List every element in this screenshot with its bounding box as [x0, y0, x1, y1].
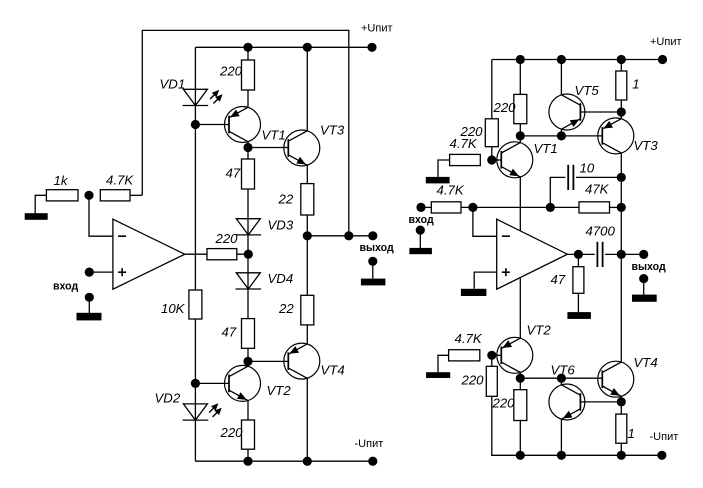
node +rail/220 junction (left) [243, 43, 252, 52]
node output ground terminal (right) [639, 274, 648, 283]
svg-text:VD4: VD4 [268, 271, 294, 286]
label 1 upper (right) [632, 77, 639, 92]
ground of output (left) [361, 279, 386, 286]
label 220 output (left) [215, 231, 239, 246]
node output ground terminal (left) [368, 257, 377, 266]
resistor 220 first (right top) [485, 119, 498, 147]
wire inverting input branch (right) [473, 207, 497, 236]
node VT6-collector junction (right) [557, 374, 566, 383]
label +Uпит (right) [650, 36, 682, 48]
node -rail/220 (right) [516, 451, 525, 460]
resistor 47K (right) [579, 202, 610, 213]
node -rail/220 junction (left) [243, 457, 252, 466]
label VT2 (left) [267, 383, 292, 398]
wire +Uпит rail (right) [492, 59, 663, 61]
svg-text:4.7K: 4.7K [437, 182, 465, 197]
wire VT2 base (left) [195, 382, 229, 384]
node input ground terminal (right) [416, 226, 425, 235]
resistor 4.7K upper (right) [450, 154, 481, 165]
diode VD3 [236, 219, 262, 235]
svg-text:вход: вход [53, 280, 78, 292]
wire op-amp output (right) [567, 253, 594, 255]
svg-text:47: 47 [551, 272, 566, 287]
svg-text:22: 22 [278, 191, 294, 206]
svg-text:-Uпит: -Uпит [355, 438, 384, 450]
svg-text:47: 47 [222, 325, 237, 340]
node VD2/VT2-base junction [191, 379, 200, 388]
label VT4 (left) [321, 363, 345, 378]
resistor 4.7K (left) [100, 190, 130, 201]
svg-text:220: 220 [220, 425, 244, 440]
transistor VT3 (right) [598, 118, 634, 154]
label 47 shunt (right) [551, 272, 566, 287]
wire VT6 base (right) [580, 401, 621, 403]
wire VT3 emitter / output chain (left) [306, 165, 308, 344]
svg-text:VT4: VT4 [321, 363, 345, 378]
wire 47K to output line (right) [610, 206, 622, 208]
op-amp U2 plus pin [502, 268, 510, 276]
resistor 220 fourth (right bottom) [514, 390, 527, 421]
ground of 4.7K lower (right) [426, 372, 450, 378]
svg-text:220: 220 [461, 373, 485, 388]
node VT1-collector junction (right) [516, 131, 525, 140]
svg-text:220: 220 [215, 231, 239, 246]
node +Uпит terminal (left) [367, 43, 376, 52]
label -Uпит (right) [650, 431, 679, 443]
svg-text:VD2: VD2 [155, 391, 181, 406]
wire VT4 base (left) [248, 360, 288, 362]
resistor 4.7K lower (right) [449, 350, 480, 361]
svg-text:10: 10 [580, 160, 595, 175]
svg-text:4.7K: 4.7K [450, 136, 478, 151]
node +Uпит terminal (right) [658, 55, 667, 64]
resistor 47 shunt (right) [573, 267, 584, 294]
op-amp U1 (left) [113, 219, 185, 289]
node +rail/220 (right) [516, 55, 525, 64]
label вход (left) [53, 280, 78, 292]
svg-text:VT3: VT3 [634, 138, 659, 153]
label VT2 (right) [527, 323, 552, 338]
transistor VT2 (left) [225, 365, 261, 401]
node cap10 tap (right) [546, 203, 555, 212]
label вход (right) [409, 214, 434, 226]
wire VT3 collector / output line (right) [620, 153, 622, 362]
wire output ground stem (left) [372, 261, 374, 278]
label VT3 (left) [320, 123, 345, 138]
node -Uпит terminal (right) [657, 451, 666, 460]
transistor VT4 (right) [598, 361, 634, 397]
node VT2-collector junction (right) [516, 374, 525, 383]
label 10K [161, 301, 186, 316]
wire VT3 collector to +rail (left) [306, 47, 308, 131]
svg-text:220: 220 [492, 396, 516, 411]
svg-text:выход: выход [632, 261, 667, 273]
wire -Uпит rail (left) [195, 460, 372, 462]
wire 220/4.7K input branch upper (right) [491, 60, 493, 161]
svg-text:22: 22 [278, 301, 294, 316]
wire VT5 base (right) [580, 111, 621, 113]
svg-text:220: 220 [219, 64, 243, 79]
wire output node (left) [307, 235, 373, 237]
label 220 first (right top) [460, 124, 484, 139]
op-amp U1 minus pin [118, 235, 126, 237]
svg-text:вход: вход [409, 214, 434, 226]
node VD3/VD4 midpoint [244, 250, 253, 259]
transistor VT6 (right) [549, 384, 585, 420]
node VT1-collector junction [243, 143, 252, 152]
ground of input (right) [409, 248, 432, 254]
node input ground terminal (left) [85, 293, 94, 302]
node op-amp output junction (right) [574, 250, 583, 259]
resistor 1k [46, 190, 78, 201]
wire 4.7K upper to ground (right) [438, 160, 450, 177]
label 22 upper [278, 191, 294, 206]
LED VD1 [183, 89, 209, 105]
svg-text:+Uпит: +Uпит [361, 23, 393, 35]
svg-text:4700: 4700 [586, 224, 616, 239]
label VD4 [268, 271, 294, 286]
node VT1 base junction (right) [487, 155, 496, 164]
node VT5-emitter junction (right) [557, 131, 566, 140]
label 220 fourth (right bottom) [492, 396, 516, 411]
label VT4 (right) [634, 355, 658, 370]
wire 47 shunt stem (right) [577, 254, 579, 266]
svg-text:1: 1 [628, 426, 635, 441]
label 1 lower (right) [628, 426, 635, 441]
svg-text:47K: 47K [585, 182, 610, 197]
svg-text:220: 220 [493, 100, 517, 115]
label 10 (right) [580, 160, 595, 175]
svg-text:47: 47 [226, 166, 241, 181]
label VD2 [155, 391, 181, 406]
resistor 220 third (right bottom) [486, 366, 497, 396]
label 220 second (right top) [493, 100, 517, 115]
svg-text:VT2: VT2 [267, 383, 292, 398]
wire VT3 base (left) [248, 147, 288, 149]
node выход terminal (left) [368, 231, 377, 240]
wire 4700 to output node (right) [605, 253, 644, 255]
node VT5-base/1 junction (right) [617, 107, 626, 116]
svg-text:-Uпит: -Uпит [650, 431, 679, 443]
wire VT1 base (left) [195, 124, 229, 126]
label -Uпит (left) [355, 438, 384, 450]
transistor VT5 (right) [549, 94, 585, 130]
wire output ground stem (right) [643, 279, 645, 295]
ground of 4.7K upper (right) [426, 177, 450, 184]
wire input ground stem (left) [88, 297, 90, 313]
wire 47 shunt to ground (right) [577, 293, 579, 312]
wire VT1-collector to VT3-base (right) [520, 135, 602, 137]
node +rail/VT3 junction (left) [303, 43, 312, 52]
label выход (right) [632, 261, 667, 273]
wire 220/4.7K input branch lower (right) [492, 355, 662, 455]
capacitor 4700 (right) [597, 242, 602, 267]
resistor 10K [189, 290, 202, 319]
wire cap 10 branch left (right) [550, 177, 565, 207]
wire VT1 collector chain (right) [519, 60, 521, 143]
wire VT1 base (right) [492, 159, 502, 161]
label 4.7K upper (right) [450, 136, 478, 151]
wire +Uпит rail (left) [195, 46, 372, 48]
ground of non-inverting input (right) [461, 289, 487, 296]
svg-text:VD3: VD3 [268, 218, 294, 233]
svg-text:4.7K: 4.7K [455, 331, 483, 346]
node +rail/1 (right) [617, 55, 626, 64]
svg-text:1k: 1k [54, 173, 69, 188]
node вход terminal (left) [85, 268, 94, 277]
transistor VT4 (left) [284, 343, 320, 379]
wire вход to 4.7K (right) [421, 206, 431, 208]
label 47K (right) [585, 182, 610, 197]
resistor 220 second (right top) [514, 94, 527, 123]
transistor VT1 (right) [497, 142, 533, 178]
ground of 47 shunt (right) [567, 312, 591, 319]
label VD3 [268, 218, 294, 233]
wire VT2 collector chain (right) [519, 373, 521, 456]
label 4700 (right) [586, 224, 616, 239]
wire 4.7K lower to ground (right) [438, 355, 449, 372]
label 1k [54, 173, 69, 188]
svg-text:1: 1 [632, 77, 639, 92]
ground of 1k [25, 213, 48, 220]
transistor VT3 (left) [284, 130, 320, 166]
LED VD2 [183, 404, 209, 420]
wire VT1/VT2 emitter link (right) [519, 177, 521, 338]
transistor VT2 (right) [497, 337, 533, 373]
node VT2 base junction (right) [487, 351, 496, 360]
svg-text:VT4: VT4 [634, 355, 658, 370]
wire bias chain VD1-10K-VD2 (left) [194, 47, 196, 461]
node 47K/output junction (right) [617, 203, 626, 212]
resistor 4.7K input (right) [431, 202, 461, 213]
wire main chain x=248 lower (left) [247, 401, 249, 462]
label VT5 (right) [575, 83, 600, 98]
op-amp U2 minus pin [502, 235, 510, 237]
wire VT2-collector to VT4-base (right) [520, 377, 602, 379]
label 220 bottom (left) [220, 425, 244, 440]
wire input ground stem (right) [419, 230, 421, 248]
node VT4-emitter/VT6-base junction (right) [617, 397, 626, 406]
wire 4.7K to feedback (left) [130, 194, 142, 196]
node вход terminal (right) [416, 203, 425, 212]
resistor 1 upper (right) [616, 71, 627, 100]
label 220 top (left) [219, 64, 243, 79]
node VD1/VT1-base junction [191, 120, 200, 129]
svg-text:VD1: VD1 [160, 76, 186, 91]
resistor 1 lower (right) [616, 414, 627, 443]
wire main chain x=248 upper (left) [247, 47, 249, 107]
node VT2-collector junction [243, 357, 252, 366]
wire VT6 emitter (right) [560, 419, 562, 455]
wire cap 10 branch right (right) [576, 176, 621, 178]
ground of output (right) [632, 295, 657, 302]
node +rail/VT5 (right) [557, 55, 566, 64]
wire op-amp output (left) [185, 253, 248, 255]
capacitor 10 (right) [568, 165, 573, 190]
node -rail/VT4 junction (left) [303, 457, 312, 466]
label +Uпит (left) [361, 23, 393, 35]
resistor 47 lower (left) [242, 319, 255, 349]
resistor 220 top (left) [242, 60, 255, 90]
node inverting junction (right) [468, 203, 477, 212]
label 47 lower (left) [222, 325, 237, 340]
svg-text:VT2: VT2 [527, 323, 552, 338]
svg-text:VT5: VT5 [575, 83, 600, 98]
label 4.7K (left) [106, 173, 134, 188]
svg-text:VT1: VT1 [262, 128, 286, 143]
op-amp U1 plus pin [118, 268, 126, 276]
resistor 22 lower [301, 295, 314, 325]
transistor VT1 (left) [225, 107, 261, 143]
LED VD2 arrows [209, 403, 222, 417]
svg-text:+Uпит: +Uпит [650, 36, 682, 48]
label VT3 (right) [634, 138, 659, 153]
svg-text:4.7K: 4.7K [106, 173, 134, 188]
node -Uпит terminal (left) [368, 457, 377, 466]
label 4.7K lower (right) [455, 331, 483, 346]
node -rail/1 (right) [617, 451, 626, 460]
svg-text:10K: 10K [161, 301, 186, 316]
node cap10/output junction (right) [617, 173, 626, 182]
resistor 220 output (left) [207, 249, 237, 260]
svg-text:выход: выход [360, 242, 395, 254]
node junction 1k/4.7K [84, 191, 93, 200]
LED VD1 arrows [210, 90, 223, 104]
node output/feedback junction (left) [344, 231, 353, 240]
wire VT4 emitter branch (right) [620, 396, 622, 455]
node output/22 junction (left) [303, 231, 312, 240]
wire inverting input (left) [89, 195, 113, 236]
diode VD4 [236, 273, 262, 289]
node 4700/output junction (right) [617, 250, 626, 259]
wire inverting feedback line (right) [461, 206, 579, 208]
label VT6 (right) [551, 363, 576, 378]
wire 1 resistor top branch (right) [620, 60, 622, 119]
wire VT2 base (right) [492, 354, 502, 356]
wire non-inverting input to ground (right) [474, 272, 497, 289]
resistor 220 bottom (left) [242, 420, 255, 449]
resistor 22 upper [301, 184, 314, 215]
label VT1 (left) [262, 128, 286, 143]
wire VT5 emitter (right) [560, 129, 562, 136]
wire VT4 collector to -rail (left) [306, 378, 308, 461]
ground of input (left) [77, 313, 102, 321]
label VD1 [160, 76, 186, 91]
resistor 47 upper (left) [242, 159, 255, 189]
wire feedback loop (op-amp output to inverting network, left) [142, 30, 348, 235]
wire main chain x=248 middle (left) [247, 142, 249, 367]
label 22 lower [278, 301, 294, 316]
op-amp U2 (right) [497, 219, 568, 289]
svg-text:VT1: VT1 [534, 141, 558, 156]
wire VT6 collector (right) [560, 378, 562, 385]
svg-text:VT3: VT3 [320, 123, 345, 138]
label 47 upper (left) [226, 166, 241, 181]
node выход terminal (right) [639, 250, 648, 259]
label VT1 (right) [534, 141, 558, 156]
label 220 third (right bottom) [461, 373, 485, 388]
wire 1k to ground (left) [35, 195, 46, 213]
label выход (left) [360, 242, 395, 254]
wire VT5 collector (right) [560, 60, 562, 95]
wire non-inverting input (left) [89, 271, 113, 273]
node -rail/VT6 (right) [557, 451, 566, 460]
label 4.7K input (right) [437, 182, 465, 197]
